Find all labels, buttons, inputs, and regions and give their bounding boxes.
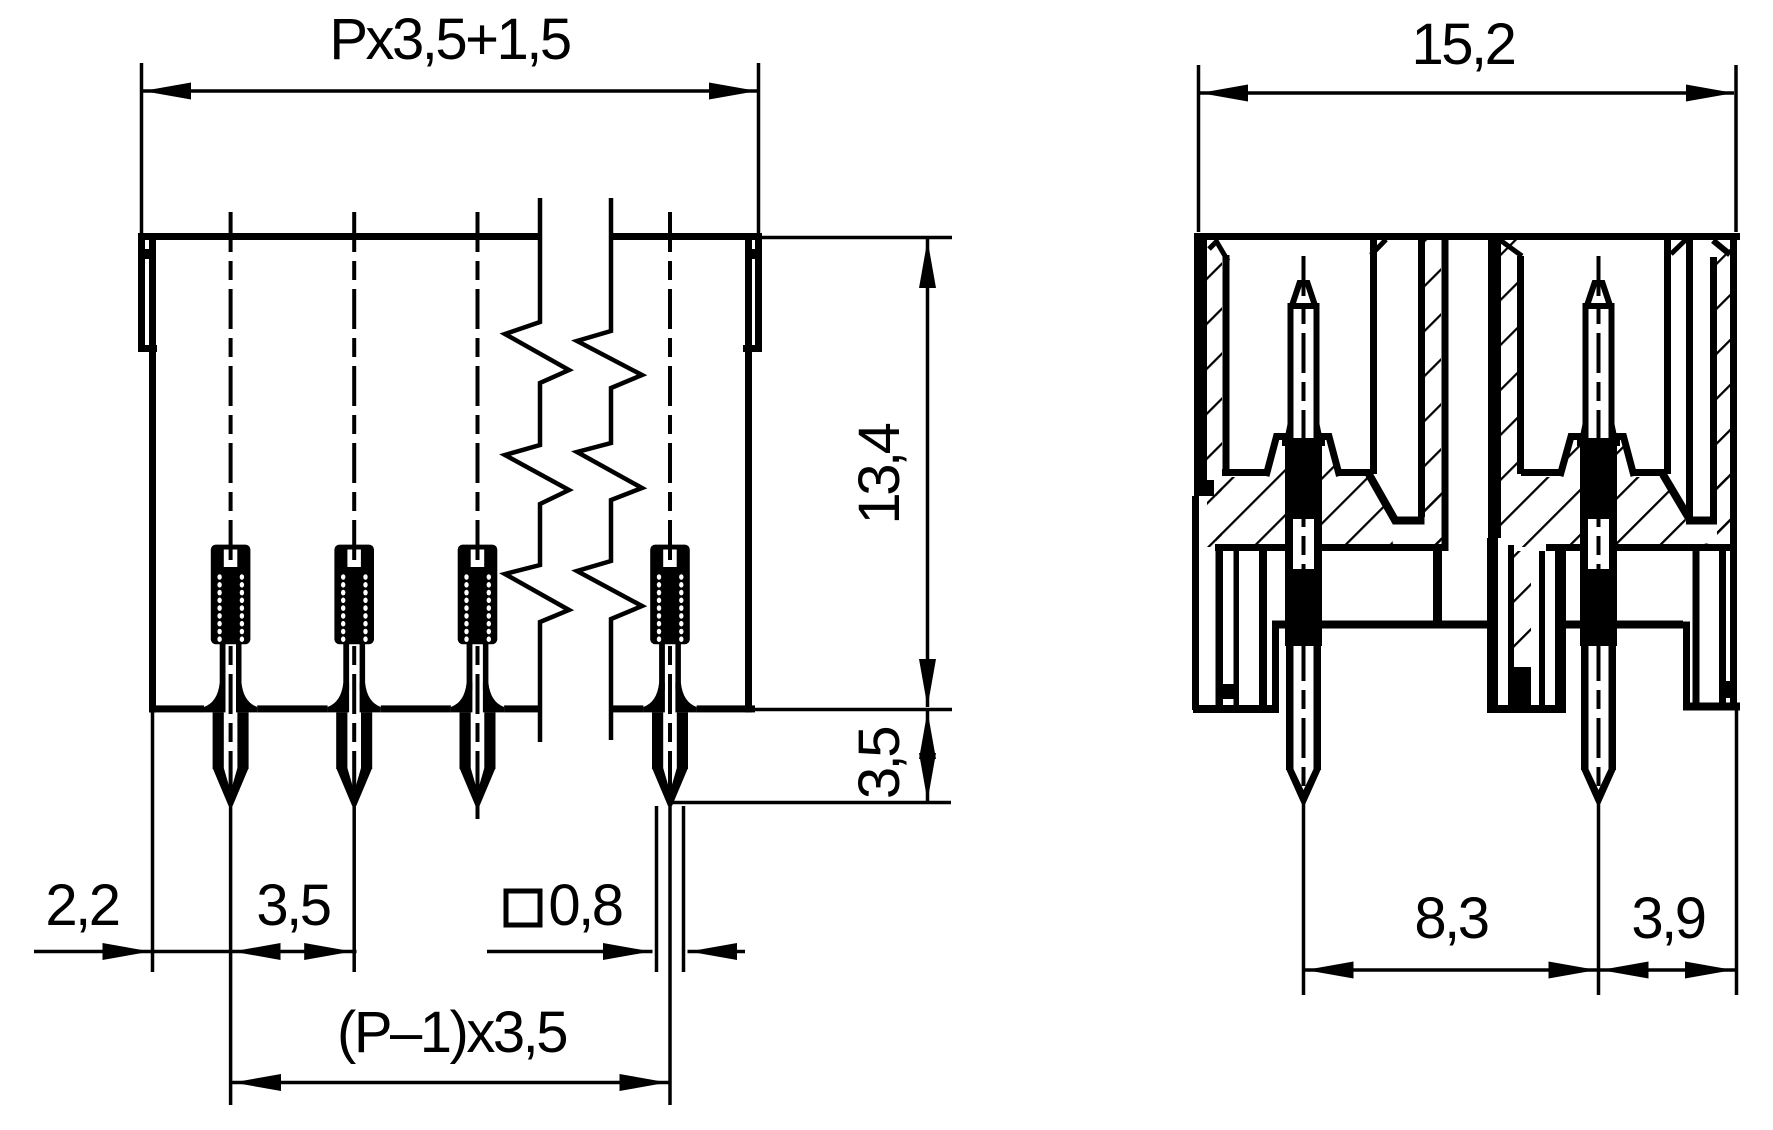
front view: pin 4 shank outlines <box>659 644 665 690</box>
section view: left foot inner line 1 <box>1216 544 1224 705</box>
front view: dimension (P-1)x3,5 line and arrows <box>231 1081 670 1085</box>
section view: pin row A solder pin sides <box>1286 646 1294 770</box>
section view: left outer edge lower <box>1192 496 1199 710</box>
section view: pin 1 funnel collar left <box>1266 437 1286 477</box>
section view: right foot inner line 1 <box>1693 551 1700 703</box>
section view: slot left wall line <box>1442 238 1449 551</box>
front view: pin 3 solder pin sides <box>460 712 471 769</box>
front view: pin 3 shank outlines <box>467 644 473 690</box>
section view: dimension 8,3 line and arrows <box>1304 968 1598 972</box>
section view: left foot bottom <box>1193 705 1279 713</box>
front view: pin 2 head top notch <box>347 550 361 568</box>
front view: pin 1 centre line <box>229 212 233 800</box>
front view: pin 3 centre line <box>476 212 480 826</box>
section view: centre foot line 3 <box>1539 551 1545 705</box>
section view: pin row A solder pin tip <box>1286 769 1321 804</box>
section view: centre foot bottom <box>1487 705 1566 713</box>
front view: pin 4 exit flare <box>643 683 665 712</box>
section view: pin row B solder pin sides <box>1581 646 1589 770</box>
section view: left latch arm bottom slant <box>1369 475 1396 523</box>
section view: left cavity floor left of pin <box>1222 469 1267 476</box>
section view: pin row A mating tip <box>1291 283 1317 310</box>
front view: pin 1 knurl dots <box>217 574 244 642</box>
section view: hatched right base slab <box>1517 437 1730 547</box>
front view: top dimension extension line right <box>757 63 761 233</box>
section view: right foot inner line 2 <box>1719 551 1726 703</box>
section view: pin row A blade flare <box>1284 424 1294 441</box>
section view: base step left of slot <box>1433 544 1442 629</box>
section view: recess bottom line right <box>1566 621 1683 629</box>
section view: right cavity floor right of pin <box>1634 469 1665 476</box>
section view: right cavity floor left of pin <box>1521 469 1561 476</box>
svg-text:3,5: 3,5 <box>256 873 329 938</box>
front view: square symbol for 0,8 <box>506 891 540 925</box>
svg-text:2,2: 2,2 <box>45 873 118 938</box>
section view: top edge <box>1194 233 1740 240</box>
section view: base bottom line left half <box>1215 544 1442 551</box>
section view: right foot left edge <box>1683 622 1690 711</box>
section view: right latch arm B right edge <box>1710 257 1717 519</box>
section view: pin row A centre line <box>1302 256 1306 800</box>
section view: right latch arm A bottom slant <box>1663 475 1690 521</box>
front view: break line left zigzag <box>505 198 569 742</box>
front view: pin 3 knurl dots <box>464 574 491 642</box>
front view: dimensions 2,2 and 3,5 line <box>34 950 357 954</box>
section view: hatched centre foot strip <box>1514 551 1531 667</box>
front view: body right outer flange line <box>755 233 762 352</box>
front view: right slot tick <box>748 249 758 259</box>
section view: left latch arm bottom bar <box>1393 517 1425 525</box>
front view: pin 4 solder pin tip <box>652 768 688 806</box>
front view: body top edge right segment <box>611 233 762 240</box>
section view: hatched wall right of left cavity <box>1425 240 1441 547</box>
section view: centre foot line 2 <box>1508 545 1514 705</box>
section view: left foot anchor square <box>1222 684 1236 699</box>
section view: pin 1 funnel collar right <box>1322 437 1340 477</box>
section view: pin row B press-fit zone <box>1580 441 1617 646</box>
section view: right foot anchor square <box>1720 681 1734 698</box>
front view: body left main edge <box>149 233 156 713</box>
section view: right edge extension line <box>1735 710 1739 995</box>
front view: top dimension line with arrows <box>143 89 757 93</box>
front view: body right main edge <box>745 233 752 713</box>
section view: pin row B solder pin tip <box>1581 769 1616 804</box>
front view: pin 1 press-fit head <box>211 545 251 645</box>
front view: dimension 3,5 vertical line and arrows <box>926 711 930 801</box>
section view: dimension 3,9 line and arrows <box>1599 968 1736 972</box>
section view: pin 2 funnel collar right <box>1617 437 1635 477</box>
section view: right-half wall inner line <box>1517 256 1524 474</box>
front view: dimension 13,4 line and arrows <box>926 239 930 707</box>
section view: recess bottom line left <box>1272 621 1487 629</box>
section view: left flange slot cap <box>1194 480 1214 496</box>
section view: 15,2 extension line right <box>1734 65 1738 232</box>
section view: right latch arm divider <box>1686 238 1693 519</box>
section view: right latch arm bottom bar <box>1686 517 1717 525</box>
front view: pin 4 knurl dots <box>657 574 684 642</box>
svg-text:8,3: 8,3 <box>1414 886 1487 951</box>
front view: pin 2 centre line <box>352 212 356 800</box>
front view: pin 2 solder pin sides <box>336 712 347 769</box>
front view: body top edge left segment <box>138 233 540 240</box>
front view: pin 1 solder pin sides <box>213 712 224 769</box>
front view: pin 3 press-fit head <box>458 545 498 645</box>
section view: hatched right wall <box>1717 240 1730 547</box>
front view: pin 1 head top notch <box>224 550 238 568</box>
front view: pin 1 exit flare <box>204 683 226 712</box>
section view: 15,2 extension line left <box>1197 65 1201 232</box>
section view: left wall inner line and chamfer <box>1223 255 1230 474</box>
svg-text:13,4: 13,4 <box>847 423 912 524</box>
section view: left foot inner line 2 <box>1234 551 1240 705</box>
front view: left slot tick <box>143 249 153 259</box>
section view: pin row B blade flare <box>1579 424 1589 441</box>
section view: pin row B mating tip <box>1586 283 1612 310</box>
section view: left latch arm left edge <box>1370 238 1377 474</box>
svg-text:(P–1)x3,5: (P–1)x3,5 <box>337 1000 566 1065</box>
front view: top dimension extension line left <box>140 63 144 233</box>
front view: pin 2 knurl dots <box>341 574 368 642</box>
front view: pin 4 centre line <box>668 212 672 800</box>
section view: right latch arm A chamfer <box>1671 240 1686 255</box>
section view: dimension 15,2 line and arrows <box>1200 91 1734 95</box>
section view: centre foot right edge <box>1555 545 1566 713</box>
section view: right latch arm B chamfer <box>1713 241 1730 255</box>
section view: right latch arms white area <box>1664 240 1717 526</box>
section view: centre bar <box>1488 238 1501 538</box>
section view: pin row B upper blade <box>1586 306 1612 441</box>
front view: pin 2 exit flare <box>328 683 350 712</box>
front view: pin 4 solder pin sides <box>652 712 663 769</box>
section view: left outer wall band <box>1194 233 1207 496</box>
section view: left cavity floor right of pin <box>1339 469 1373 476</box>
section view: right-half wall chamfer <box>1500 240 1522 256</box>
section view: left latch arm right edge <box>1418 238 1425 517</box>
front view: bottom extension line from left edge <box>151 712 155 972</box>
front view: pin 4 press-fit head <box>650 545 690 645</box>
front view: body left outer flange line <box>138 233 145 352</box>
front view: pin 3 head top notch <box>471 550 485 568</box>
front view: pin 2 press-fit head <box>334 545 374 645</box>
section view: centre foot left edge <box>1487 538 1498 713</box>
svg-text:Px3,5+1,5: Px3,5+1,5 <box>329 7 570 72</box>
section view: pin row A upper blade <box>1291 306 1317 441</box>
section view: hatched left wall <box>1207 240 1222 547</box>
section view: hatched left base slab <box>1216 437 1448 547</box>
section view: pin 2 funnel collar left <box>1560 437 1581 477</box>
svg-text:3,9: 3,9 <box>1631 886 1704 951</box>
section view: pin row B relief window <box>1588 519 1609 569</box>
svg-text:15,2: 15,2 <box>1412 12 1515 77</box>
front view: pin 3 solder pin tip <box>460 768 496 806</box>
section view: left latch arm white area <box>1370 240 1425 524</box>
section view: right outer wall band <box>1730 233 1737 710</box>
section view: pin row B centre line <box>1597 256 1601 800</box>
front view: pin 1 solder pin tip <box>213 768 249 806</box>
section view: base bottom line right half <box>1546 544 1733 551</box>
front view: pin 3 exit flare <box>451 683 473 712</box>
section view: left foot inner line 3 <box>1259 551 1267 705</box>
front view: pin 2 shank outlines <box>343 644 349 690</box>
section view: pin row A relief window <box>1293 519 1314 569</box>
front view: pin 4 width extension lines <box>655 806 659 972</box>
section view: left foot right edge <box>1272 622 1279 711</box>
section view: hatched right-half wall at slot <box>1500 240 1517 547</box>
front view: right side extension lines for height dimensions <box>762 236 952 240</box>
front view: pin 1 shank outlines <box>220 644 226 690</box>
front view: pin 4 head top notch <box>663 550 677 568</box>
front view: dimension 0,8 lines and arrows <box>487 950 653 954</box>
section view: pin row A press-fit zone <box>1285 441 1322 646</box>
front view: body bottom edge segments <box>149 705 204 712</box>
section view: centre foot anchor square <box>1514 667 1531 705</box>
section view: left latch arm chamfer <box>1371 240 1386 256</box>
svg-text:3,5: 3,5 <box>847 728 912 799</box>
front view: break line right zigzag <box>577 198 642 740</box>
section view: right foot bottom <box>1683 703 1740 711</box>
front view: pin 2 solder pin tip <box>336 768 372 806</box>
section view: right latch arm A left edge <box>1664 238 1671 474</box>
svg-text:0,8: 0,8 <box>548 873 621 938</box>
